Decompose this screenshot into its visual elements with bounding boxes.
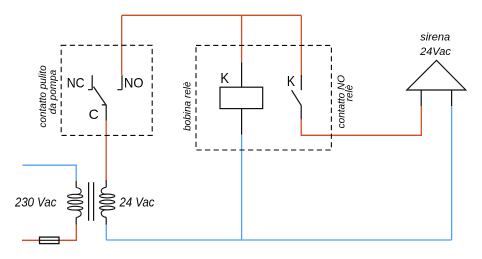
svg-text:relè: relè: [345, 84, 356, 101]
transformer primary lead top: [75, 181, 77, 188]
transformer secondary lead top: [105, 180, 107, 188]
wire orange C to transformer secondary: [105, 121, 107, 180]
wire orange relay contact to siren: [301, 106, 421, 135]
wire orange drop to relay contact: [300, 15, 302, 75]
relay contact K fixed pin: [300, 75, 302, 90]
dashed box relay: [196, 45, 331, 150]
transformer primary lead bottom: [75, 218, 77, 225]
relay coil K1 bottom pin: [241, 109, 243, 135]
transformer primary winding: [76, 188, 81, 195]
svg-text:K: K: [220, 70, 229, 87]
svg-text:NO: NO: [124, 75, 144, 91]
wire orange mains to fuse: [22, 239, 40, 241]
switch pump NC terminal: [88, 75, 92, 90]
svg-text:K: K: [287, 73, 295, 90]
wire orange fuse to primary: [59, 225, 76, 241]
switch pump lever: [94, 87, 107, 106]
siren left pin: [420, 90, 422, 106]
transformer core: [89, 182, 94, 221]
dashed box pump contact: [61, 45, 152, 135]
relay contact K bottom pin: [300, 105, 302, 119]
svg-text:da pompa: da pompa: [48, 69, 59, 114]
switch pump C terminal: [102, 105, 106, 121]
svg-text:24 Vac: 24 Vac: [119, 195, 155, 210]
wire blue bottom rail: [106, 239, 451, 241]
relay contact K lever: [292, 90, 302, 105]
svg-text:230 Vac: 230 Vac: [14, 195, 57, 210]
svg-text:NC: NC: [67, 75, 85, 91]
relay coil K1 top pin: [241, 62, 243, 87]
wire blue siren right leg to rail: [451, 106, 453, 240]
wire orange drop to relay coil: [241, 15, 243, 62]
wire orange drop to NO contact: [121, 15, 123, 75]
wire blue transformer secondary bottom: [105, 225, 107, 240]
relay coil K1 body: [220, 87, 263, 108]
siren horn triangle: [407, 60, 466, 90]
transformer secondary lead bottom: [105, 217, 107, 224]
svg-text:sirena: sirena: [420, 31, 450, 43]
fuse F1 body: [40, 237, 60, 244]
transformer secondary winding: [101, 187, 106, 194]
wire blue relay coil to bottom rail: [241, 135, 243, 240]
siren right pin: [451, 90, 453, 106]
fuse F1 element line: [40, 239, 60, 241]
svg-text:24Vac: 24Vac: [419, 46, 451, 58]
switch pump NO terminal: [117, 75, 122, 90]
svg-text:bobina relè: bobina relè: [183, 81, 194, 131]
wire blue mains input to primary top: [23, 165, 77, 181]
wire orange top rail: [122, 14, 302, 16]
svg-text:C: C: [89, 106, 99, 122]
